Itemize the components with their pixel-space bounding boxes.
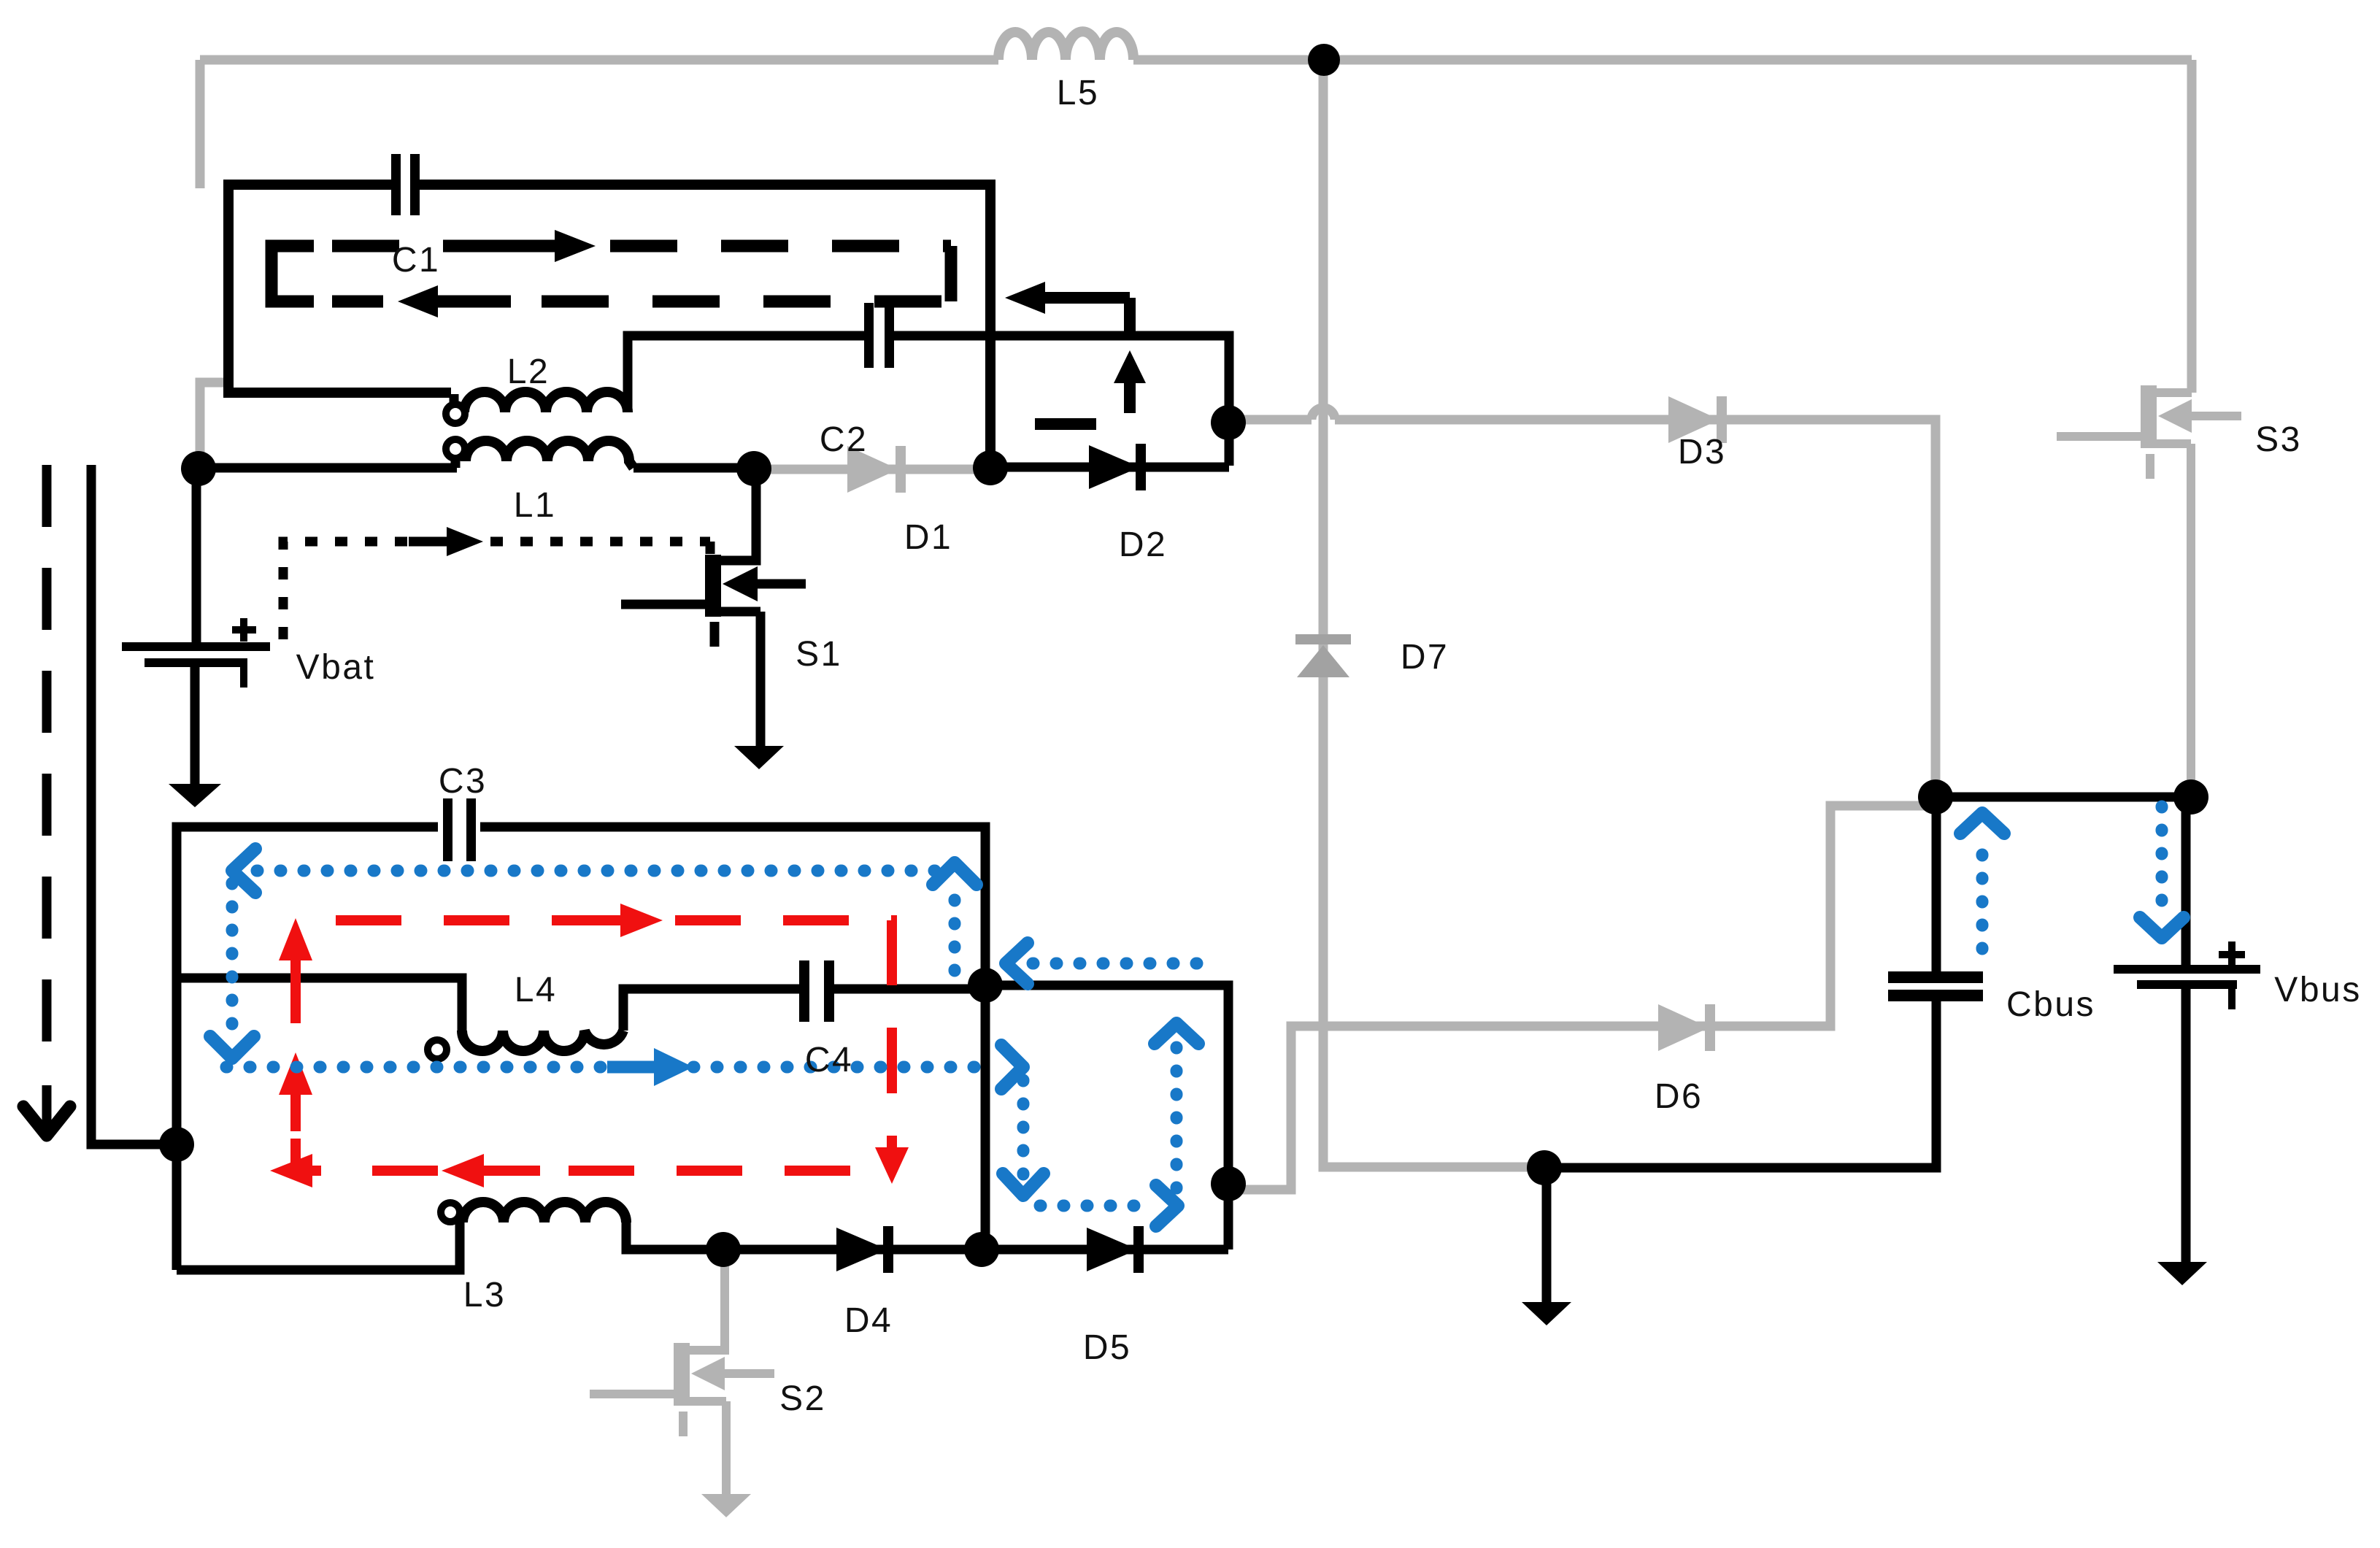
svg-text:C2: C2 bbox=[820, 420, 868, 459]
svg-text:L4: L4 bbox=[515, 971, 557, 1009]
svg-text:D6: D6 bbox=[1655, 1077, 1703, 1116]
svg-text:L2: L2 bbox=[507, 353, 550, 391]
svg-text:S3: S3 bbox=[2255, 420, 2302, 459]
svg-text:C4: C4 bbox=[805, 1041, 853, 1079]
svg-text:L1: L1 bbox=[514, 486, 556, 525]
svg-text:C1: C1 bbox=[392, 241, 440, 280]
svg-text:D1: D1 bbox=[904, 518, 952, 557]
svg-text:S1: S1 bbox=[796, 635, 842, 674]
svg-text:C3: C3 bbox=[439, 762, 487, 801]
svg-text:D2: D2 bbox=[1119, 525, 1167, 564]
svg-text:L5: L5 bbox=[1057, 74, 1099, 112]
svg-text:L3: L3 bbox=[463, 1276, 506, 1314]
svg-text:Cbus: Cbus bbox=[2006, 985, 2095, 1024]
svg-text:Vbat: Vbat bbox=[296, 648, 376, 687]
svg-text:D5: D5 bbox=[1083, 1328, 1131, 1367]
svg-text:D3: D3 bbox=[1678, 433, 1726, 471]
svg-text:S2: S2 bbox=[779, 1379, 826, 1418]
svg-text:D4: D4 bbox=[844, 1301, 893, 1340]
svg-text:D7: D7 bbox=[1401, 638, 1449, 677]
svg-text:Vbus: Vbus bbox=[2274, 971, 2361, 1009]
